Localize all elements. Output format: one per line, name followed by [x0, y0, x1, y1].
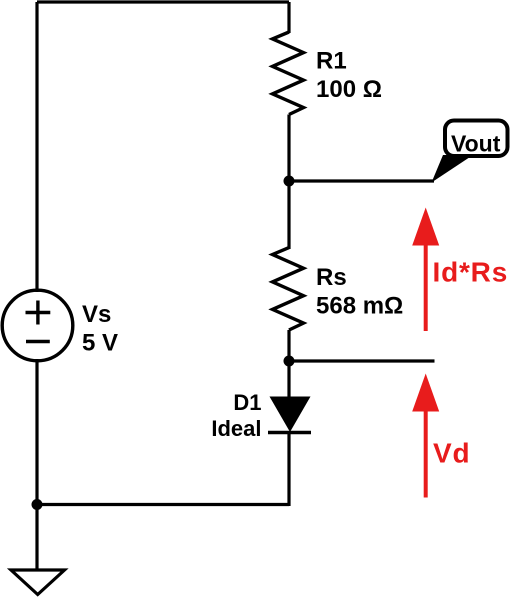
wire: horizontal from Vout node to callout tail — [289, 179, 434, 182]
Vout callout box — [445, 121, 508, 157]
svg-text:D1: D1 — [233, 390, 261, 415]
node B: junction dot at diode anode node — [284, 356, 295, 367]
resistor Rs — [273, 248, 304, 330]
wire: stub from ground node down to ground symbol — [35, 505, 38, 571]
node: junction dot at ground node — [32, 499, 43, 510]
svg-text:Ideal: Ideal — [211, 416, 261, 441]
annotation arrow Vd head — [412, 374, 439, 412]
svg-text:Vs: Vs — [82, 301, 111, 328]
svg-text:R1: R1 — [316, 48, 347, 75]
wire: vertical between Rs and diode — [287, 330, 290, 398]
resistor R1 — [273, 32, 304, 115]
wire: left vertical from top wire down to Vs positive terminal — [35, 2, 38, 292]
node A: junction dot at Vout node — [284, 176, 295, 187]
annotation arrow Id*Rs head — [412, 208, 439, 246]
wire: right vertical from top wire into R1 — [287, 2, 290, 33]
wire: top horizontal from Vs branch to R1 branch — [37, 0, 289, 3]
svg-text:Vout: Vout — [451, 131, 501, 157]
diode D1 cathode bar — [268, 431, 311, 435]
wire: vertical from diode cathode to bottom wire — [287, 433, 290, 507]
Vs plus sign — [26, 301, 51, 325]
wire: vertical between R1 and Rs — [287, 115, 290, 250]
svg-text:Id*Rs: Id*Rs — [433, 257, 509, 288]
annotation arrow Vd shaft — [424, 405, 428, 498]
wire: horizontal from diode node to the right — [289, 359, 435, 362]
Vout callout tail — [432, 155, 474, 183]
wire: left vertical from Vs negative terminal to bottom wire — [35, 359, 38, 506]
svg-text:5 V: 5 V — [82, 330, 118, 357]
svg-text:Vd: Vd — [433, 438, 470, 469]
svg-text:100 Ω: 100 Ω — [316, 76, 382, 103]
Vs minus sign — [26, 340, 50, 343]
svg-text:568 mΩ: 568 mΩ — [316, 293, 403, 320]
voltage source Vs circle — [2, 290, 73, 361]
ground — [11, 570, 65, 595]
svg-text:Rs: Rs — [316, 264, 347, 291]
annotation arrow Id*Rs shaft — [424, 240, 428, 331]
wire: bottom horizontal from ground node to diode branch — [37, 503, 289, 506]
diode D1 anode triangle — [270, 397, 311, 433]
